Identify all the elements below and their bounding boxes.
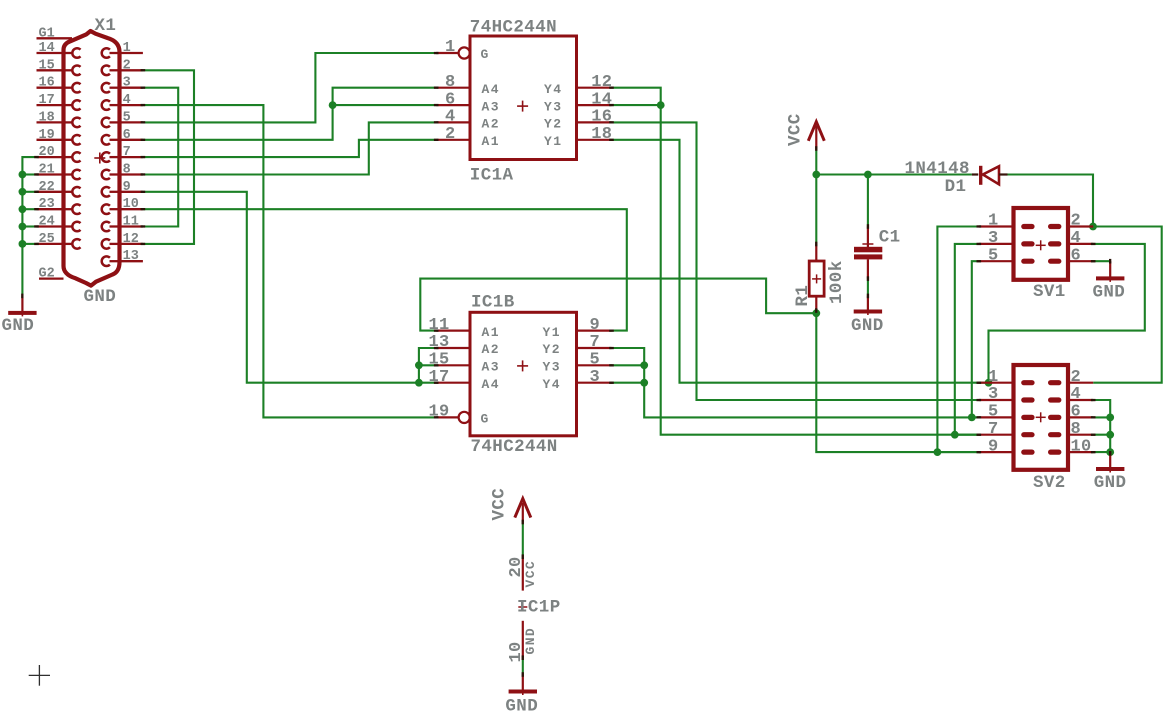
wire IC1A Y1 to SV2.1 <box>612 140 989 383</box>
svg-text:3: 3 <box>590 368 601 387</box>
R1 value 100k <box>827 260 847 304</box>
svg-text:12: 12 <box>123 232 139 247</box>
svg-text:2: 2 <box>1071 368 1082 387</box>
IC1P name label <box>517 598 561 618</box>
svg-text:9: 9 <box>590 316 601 335</box>
svg-text:14: 14 <box>39 41 55 56</box>
svg-text:8: 8 <box>123 163 131 178</box>
svg-text:A2: A2 <box>482 342 500 357</box>
wire IC1A Y3 branch <box>612 104 661 106</box>
svg-text:7: 7 <box>123 145 131 160</box>
D1 name label <box>945 177 967 197</box>
junction A3/A4 tie <box>329 101 337 109</box>
svg-text:1: 1 <box>123 41 131 56</box>
junction IC1B A4 <box>415 379 423 387</box>
D1 value 1N4148 <box>905 159 970 179</box>
wire X1.6 to IC1A A4 <box>143 88 436 140</box>
svg-text:G: G <box>481 47 490 62</box>
SV2 name label <box>1033 473 1066 493</box>
wire branch IC1A A3 <box>333 104 437 106</box>
wire C1 bottom <box>867 279 869 296</box>
wire X1.20 to GND bus <box>22 157 36 296</box>
svg-text:5: 5 <box>988 246 999 265</box>
svg-text:5: 5 <box>590 351 601 370</box>
IC1P pin VCC name <box>523 560 538 588</box>
junction X1.24 <box>19 223 27 231</box>
junction X1.25 <box>19 240 27 248</box>
svg-text:12: 12 <box>591 73 612 92</box>
svg-text:VCC: VCC <box>786 113 806 146</box>
svg-text:4: 4 <box>1071 229 1082 248</box>
svg-text:A3: A3 <box>482 360 500 375</box>
wire SV1.5 to SV2.5 <box>972 261 980 417</box>
junction R1 bottom <box>812 309 820 317</box>
wire D1 to SV1.2 <box>1008 175 1094 227</box>
junction X1.22 <box>19 188 27 196</box>
svg-text:18: 18 <box>39 110 55 125</box>
svg-text:1: 1 <box>988 368 999 387</box>
svg-text:4: 4 <box>1071 385 1082 404</box>
wire IC1A Y4 down <box>612 88 981 435</box>
wire IC1B A2-A3-A4 tie <box>419 348 436 383</box>
supply VCC arrow (IC1P) <box>490 488 531 522</box>
svg-text:IC1A: IC1A <box>470 166 514 186</box>
svg-text:Y2: Y2 <box>543 342 561 357</box>
svg-text:14: 14 <box>591 90 612 109</box>
svg-text:19: 19 <box>428 403 449 422</box>
junction IC1B A3 <box>415 361 423 369</box>
wire branch IC1B Y4 <box>611 382 644 384</box>
svg-text:3: 3 <box>988 385 999 404</box>
svg-text:19: 19 <box>39 128 55 143</box>
svg-text:23: 23 <box>39 197 55 212</box>
svg-text:GND: GND <box>505 697 538 717</box>
ground symbol GND (SV2) <box>1094 452 1127 493</box>
pin header SV2 <box>979 365 1093 470</box>
wire SV1.4 to SV2.1 <box>989 244 1145 383</box>
junction VCC/C1 <box>864 171 872 179</box>
svg-text:4: 4 <box>123 93 131 108</box>
svg-text:A1: A1 <box>482 325 500 340</box>
svg-text:X1: X1 <box>95 16 117 36</box>
svg-text:8: 8 <box>1071 420 1082 439</box>
svg-text:Y1: Y1 <box>543 325 561 340</box>
svg-text:74HC244N: 74HC244N <box>470 17 557 37</box>
wire X1.25 to GND bus <box>22 243 36 245</box>
svg-text:A1: A1 <box>482 134 500 149</box>
svg-text:A2: A2 <box>482 117 500 132</box>
connector X1 body <box>64 31 120 286</box>
svg-text:74HC244N: 74HC244N <box>471 437 558 457</box>
svg-text:2: 2 <box>445 125 456 144</box>
junction VCC/R1 <box>812 171 820 179</box>
junction SV2.9 <box>934 448 942 456</box>
junction SV2.5 <box>968 414 976 422</box>
wire SV2.8 branch <box>1093 434 1110 436</box>
svg-text:18: 18 <box>591 125 612 144</box>
junction X1.23 <box>19 205 27 213</box>
op IC1B box <box>470 312 577 436</box>
svg-text:Y1: Y1 <box>544 134 562 149</box>
svg-text:2: 2 <box>123 58 131 73</box>
supply VCC arrow <box>786 113 825 148</box>
wire branch IC1B A4 <box>419 382 436 384</box>
svg-text:IC1P: IC1P <box>517 598 561 618</box>
wire X1.22 to GND bus <box>22 191 36 193</box>
wire X1.5 to IC1A G <box>143 53 436 122</box>
ground symbol GND (C1) <box>851 296 884 336</box>
svg-text:100k: 100k <box>827 260 847 304</box>
svg-text:8: 8 <box>445 73 456 92</box>
svg-text:3: 3 <box>988 229 999 248</box>
wire IC1A Y2 to SV2.3 <box>612 122 981 400</box>
svg-text:Y4: Y4 <box>544 82 562 97</box>
svg-text:6: 6 <box>123 128 131 143</box>
IC1P pin 10 number <box>507 641 526 662</box>
junction X1.21 <box>19 171 27 179</box>
svg-text:11: 11 <box>123 215 139 230</box>
svg-text:Y3: Y3 <box>544 99 562 114</box>
svg-text:25: 25 <box>39 232 55 247</box>
wire SV2.6 branch <box>1093 416 1110 418</box>
svg-text:Y4: Y4 <box>543 377 561 392</box>
wire VCC rail <box>816 173 868 175</box>
wire branch IC1B A3 <box>419 364 436 366</box>
wire X1.10 to IC1B Y1 <box>143 209 627 330</box>
wire X1.4 to IC1B G <box>143 105 436 417</box>
svg-text:4: 4 <box>445 108 456 127</box>
svg-text:GND: GND <box>523 627 538 655</box>
svg-text:13: 13 <box>428 333 449 352</box>
wire VCC stem <box>815 149 817 175</box>
svg-text:R1: R1 <box>793 285 813 307</box>
SV2 pin numbers <box>988 368 1092 456</box>
wire R1 bottom to SV2.9 <box>816 310 980 452</box>
X1 pins <box>37 38 143 278</box>
wire X1.2 to X1.12 <box>143 70 194 244</box>
svg-text:G2: G2 <box>39 267 55 282</box>
svg-text:20: 20 <box>39 145 55 160</box>
wire X1.8 to IC1A A2 <box>143 122 436 174</box>
wire SV1.6 to ground <box>1093 260 1110 262</box>
IC1B pin names <box>481 325 561 427</box>
wire R1 top <box>815 175 817 245</box>
svg-text:3: 3 <box>123 76 131 91</box>
svg-text:10: 10 <box>123 197 139 212</box>
svg-text:7: 7 <box>988 420 999 439</box>
svg-text:5: 5 <box>988 403 999 422</box>
wire X1.23 to GND bus <box>22 208 36 210</box>
IC1B pin numbers <box>428 316 600 422</box>
pin header SV1 <box>979 208 1093 280</box>
junction SV2.1 <box>985 379 993 387</box>
svg-text:1: 1 <box>445 38 456 57</box>
junction IC1B Y4 <box>640 379 648 387</box>
svg-text:VCC: VCC <box>523 560 538 588</box>
svg-text:6: 6 <box>1071 246 1082 265</box>
svg-text:A4: A4 <box>482 377 500 392</box>
SV1 pin numbers <box>988 212 1081 266</box>
ground symbol GND (X1) <box>2 296 37 336</box>
wire VCC to IC1P <box>522 522 524 557</box>
X1 name label <box>95 16 117 36</box>
op IC1A box <box>470 36 577 160</box>
IC1P pin GND name <box>523 627 538 655</box>
wire IC1P GND <box>522 658 524 675</box>
svg-text:GND: GND <box>851 316 884 336</box>
junction SV2.7 <box>951 431 959 439</box>
wire X1.21 to GND bus <box>22 173 36 175</box>
SV1 name label <box>1033 282 1066 302</box>
X1 pin numbers <box>39 26 139 281</box>
wire X1.7 to IC1A A1 <box>143 140 436 157</box>
IC1A pins <box>436 88 611 140</box>
wire SV1.2 to SV2.2 <box>1093 227 1162 383</box>
svg-text:1: 1 <box>988 212 999 231</box>
IC1B value 74HC244N <box>471 437 558 457</box>
svg-text:A3: A3 <box>482 99 500 114</box>
IC1B name label <box>471 292 515 312</box>
svg-text:9: 9 <box>123 180 131 195</box>
svg-text:GND: GND <box>1093 283 1126 303</box>
wire SV2.4 to ground rail <box>1093 400 1110 452</box>
C1 name label <box>879 228 901 248</box>
resistor R1 <box>809 244 824 310</box>
diode D1 <box>972 166 1008 185</box>
svg-text:10: 10 <box>1071 437 1092 456</box>
svg-text:2: 2 <box>1071 212 1082 231</box>
svg-text:C1: C1 <box>879 228 901 248</box>
IC1B pin G (19) <box>436 412 470 423</box>
R1 name label <box>793 285 813 307</box>
svg-text:6: 6 <box>445 90 456 109</box>
svg-text:16: 16 <box>39 76 55 91</box>
svg-text:16: 16 <box>591 108 612 127</box>
ground symbol GND (IC1P) <box>505 675 538 717</box>
IC1A value 74HC244N <box>470 17 557 37</box>
svg-text:GND: GND <box>2 316 35 336</box>
svg-text:17: 17 <box>39 93 55 108</box>
IC1A name label <box>470 166 514 186</box>
svg-text:GND: GND <box>1094 473 1127 493</box>
wire branch IC1B Y3 <box>611 364 644 366</box>
junction SV2.6 <box>1106 414 1114 422</box>
svg-text:13: 13 <box>123 249 139 264</box>
svg-text:24: 24 <box>39 215 55 230</box>
wire SV1.3 to SV2.7 <box>955 244 980 435</box>
junction SV2.10 <box>1106 448 1114 456</box>
svg-text:22: 22 <box>39 180 55 195</box>
wire IC1B A1 to R1 <box>420 279 816 331</box>
IC1B pins <box>436 331 611 383</box>
svg-text:1N4148: 1N4148 <box>905 159 970 179</box>
wire X1.24 to GND bus <box>22 225 36 227</box>
svg-text:GND: GND <box>84 287 117 307</box>
svg-text:A4: A4 <box>482 82 500 97</box>
svg-text:IC1B: IC1B <box>471 292 515 312</box>
wire IC1B Y2 tie <box>611 348 980 417</box>
junction IC1B Y3 <box>640 361 648 369</box>
svg-text:21: 21 <box>39 163 55 178</box>
IC1A pin numbers <box>445 38 612 144</box>
ground symbol GND (SV1) <box>1093 261 1126 302</box>
power pins IC1P <box>518 557 527 658</box>
wire VCC to D1 <box>868 173 972 175</box>
svg-text:5: 5 <box>123 110 131 125</box>
junction Y4/Y3 tie <box>657 101 665 109</box>
svg-text:15: 15 <box>39 58 55 73</box>
IC1A pin G (1) <box>436 47 470 58</box>
svg-text:17: 17 <box>428 368 449 387</box>
wire X1.9 to IC1B A-inputs <box>143 192 419 383</box>
svg-text:11: 11 <box>428 316 449 335</box>
wire X1.3 to X1.11 <box>143 88 178 227</box>
X1 value label GND <box>84 287 117 307</box>
svg-text:Y2: Y2 <box>544 117 562 132</box>
wire SV1.1 to SV2.9 <box>937 227 980 453</box>
svg-text:D1: D1 <box>945 177 967 197</box>
svg-text:9: 9 <box>988 437 999 456</box>
svg-text:Y3: Y3 <box>543 360 561 375</box>
svg-text:6: 6 <box>1071 403 1082 422</box>
capacitor C1 <box>854 227 882 279</box>
wire SV2.10 branch <box>1093 451 1110 453</box>
wire C1 top <box>867 175 869 227</box>
junction SV2.8 <box>1106 431 1114 439</box>
svg-text:VCC: VCC <box>490 488 510 521</box>
junction SV1.2 <box>1089 223 1097 231</box>
page origin crosshair <box>29 665 50 686</box>
svg-text:SV2: SV2 <box>1033 473 1066 493</box>
IC1A pin names <box>481 47 563 149</box>
svg-text:15: 15 <box>428 351 449 370</box>
svg-text:7: 7 <box>590 333 601 352</box>
svg-text:G: G <box>481 412 490 427</box>
IC1P pin 20 number <box>507 556 526 577</box>
svg-text:SV1: SV1 <box>1033 282 1066 302</box>
svg-text:G1: G1 <box>39 26 55 41</box>
